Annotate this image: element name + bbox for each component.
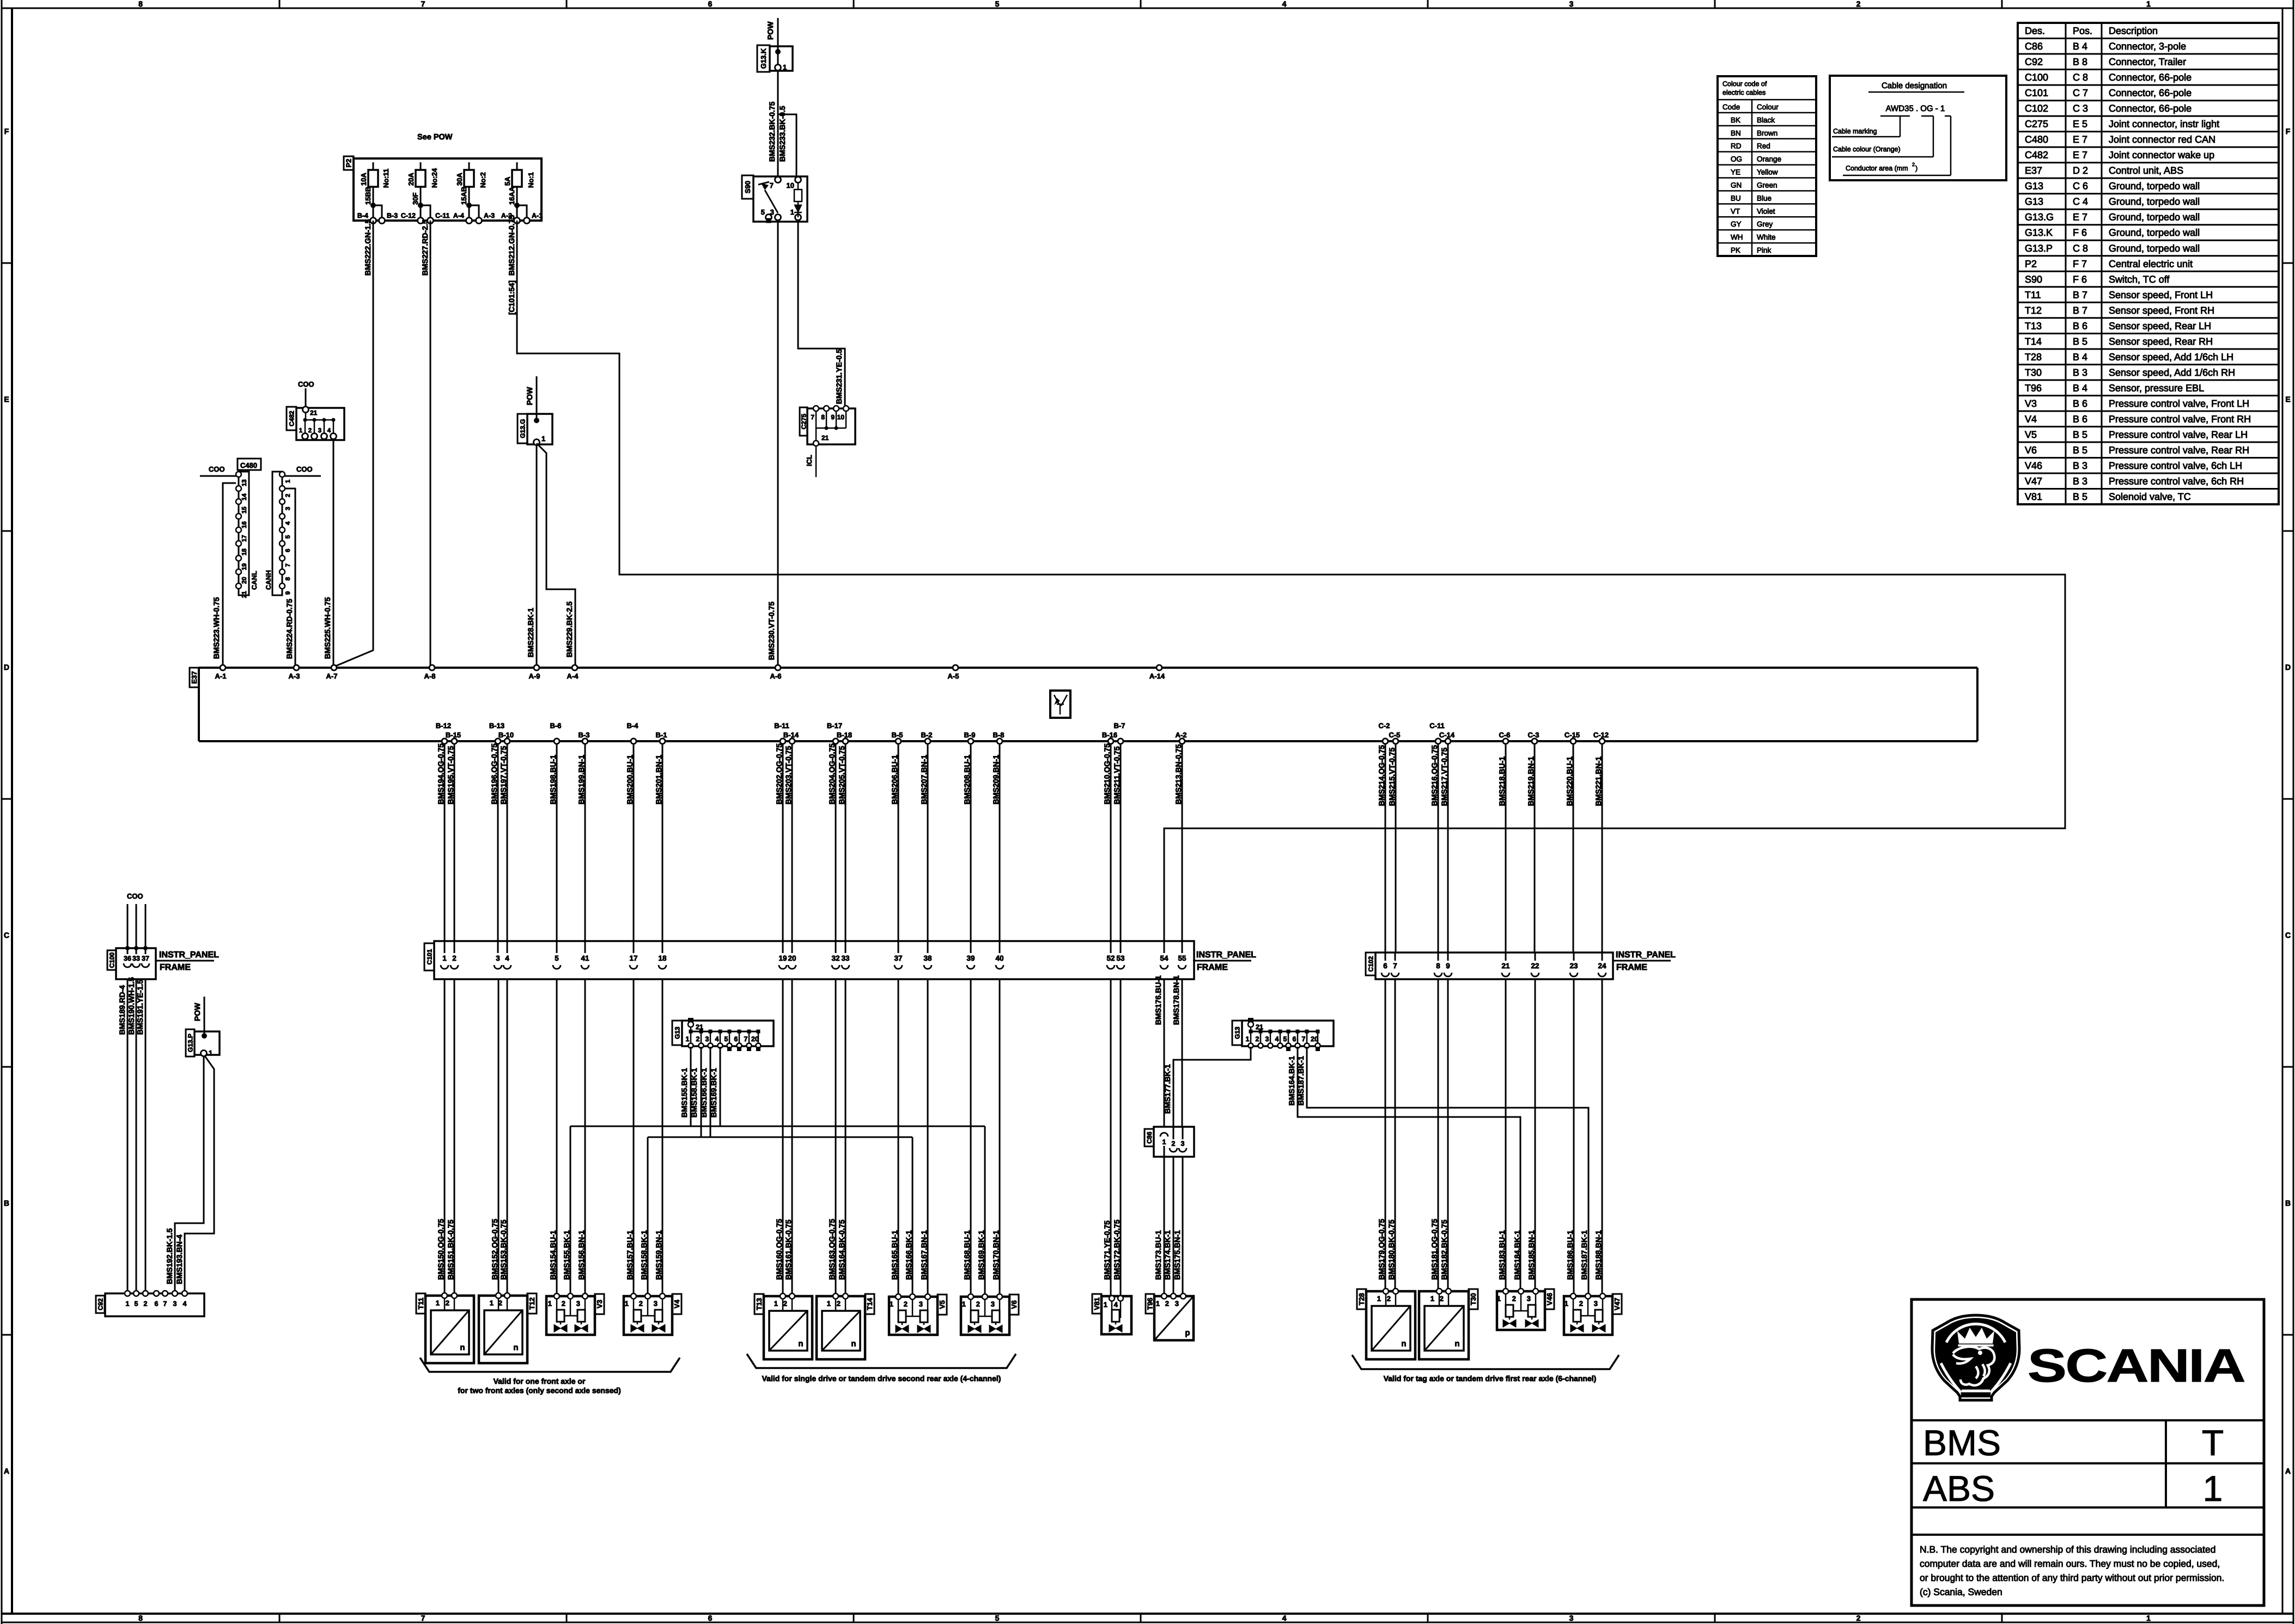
svg-text:1: 1 bbox=[827, 1299, 831, 1308]
svg-text:Pressure control valve, Rear: Pressure control valve, Rear RH bbox=[2109, 444, 2249, 455]
svg-text:2: 2 bbox=[446, 1299, 449, 1307]
svg-text:G13.P: G13.P bbox=[2025, 243, 2053, 254]
svg-text:INSTR_PANEL: INSTR_PANEL bbox=[1196, 950, 1256, 960]
svg-text:COO: COO bbox=[296, 465, 313, 473]
svg-text:C100: C100 bbox=[108, 952, 115, 968]
svg-text:BMS216.OG-0.75: BMS216.OG-0.75 bbox=[1430, 745, 1439, 806]
svg-text:B 5: B 5 bbox=[2073, 429, 2087, 440]
svg-text:GN: GN bbox=[1731, 181, 1742, 189]
svg-text:1: 1 bbox=[2146, 1614, 2151, 1622]
svg-text:Des.: Des. bbox=[2025, 26, 2045, 36]
svg-text:1: 1 bbox=[1156, 1299, 1160, 1308]
svg-text:3: 3 bbox=[654, 1299, 658, 1308]
svg-text:S90: S90 bbox=[2025, 274, 2042, 285]
svg-text:Ground, torpedo wall: Ground, torpedo wall bbox=[2109, 227, 2200, 238]
svg-text:2: 2 bbox=[783, 1299, 787, 1308]
svg-text:BMS215.VT-0.75: BMS215.VT-0.75 bbox=[1387, 747, 1396, 806]
svg-text:B 4: B 4 bbox=[2073, 382, 2087, 393]
svg-text:5: 5 bbox=[995, 1614, 1000, 1622]
svg-text:2: 2 bbox=[144, 1300, 148, 1308]
svg-text:BMS152.OG-0.75: BMS152.OG-0.75 bbox=[490, 1219, 499, 1280]
svg-text:5: 5 bbox=[285, 535, 291, 539]
svg-text:No:24: No:24 bbox=[430, 168, 439, 188]
svg-text:Ground, torpedo wall: Ground, torpedo wall bbox=[2109, 196, 2200, 207]
svg-text:BMS158.BK-1: BMS158.BK-1 bbox=[690, 1068, 698, 1118]
svg-text:BMS202.OG-0.75: BMS202.OG-0.75 bbox=[775, 743, 783, 804]
svg-text:Cable colour (Orange): Cable colour (Orange) bbox=[1833, 145, 1901, 153]
svg-text:COO: COO bbox=[209, 465, 225, 473]
svg-text:A-14: A-14 bbox=[1149, 672, 1165, 680]
svg-text:BMS209.BN-1: BMS209.BN-1 bbox=[991, 755, 1000, 804]
svg-text:p: p bbox=[1185, 1328, 1190, 1338]
svg-text:for two front axles (only seco: for two front axles (only second axle se… bbox=[458, 1386, 621, 1395]
svg-text:BMS171.YE-0.75: BMS171.YE-0.75 bbox=[1103, 1220, 1111, 1280]
svg-text:2: 2 bbox=[1579, 1299, 1583, 1308]
svg-text:[C101:54]: [C101:54] bbox=[507, 280, 516, 315]
svg-text:E 7: E 7 bbox=[2073, 134, 2087, 145]
svg-text:2: 2 bbox=[285, 494, 291, 497]
svg-text:D: D bbox=[2285, 663, 2291, 671]
svg-text:See POW: See POW bbox=[417, 133, 453, 142]
svg-text:15AB: 15AB bbox=[460, 187, 468, 205]
svg-text:B-3: B-3 bbox=[579, 731, 590, 739]
svg-text:15: 15 bbox=[241, 506, 248, 514]
svg-text:BMS230.VT-0.75: BMS230.VT-0.75 bbox=[767, 601, 776, 660]
svg-text:BMS208.BU-1: BMS208.BU-1 bbox=[963, 755, 971, 804]
svg-text:2: 2 bbox=[308, 428, 312, 434]
svg-text:B 3: B 3 bbox=[2073, 460, 2087, 471]
svg-text:V46: V46 bbox=[2025, 460, 2042, 471]
svg-text:A-6: A-6 bbox=[770, 672, 782, 680]
svg-text:3: 3 bbox=[285, 507, 291, 510]
svg-text:Valid for tag axle or tandem d: Valid for tag axle or tandem drive first… bbox=[1384, 1374, 1597, 1383]
svg-text:Ground, torpedo wall: Ground, torpedo wall bbox=[2109, 181, 2200, 192]
svg-text:G13: G13 bbox=[2025, 196, 2043, 207]
svg-text:V5: V5 bbox=[938, 1301, 946, 1309]
svg-text:Red: Red bbox=[1757, 142, 1770, 150]
svg-text:B 6: B 6 bbox=[2073, 320, 2087, 331]
svg-text:4: 4 bbox=[1282, 1614, 1287, 1622]
svg-text:9: 9 bbox=[285, 591, 291, 595]
svg-text:C275: C275 bbox=[800, 413, 807, 429]
svg-text:A-1: A-1 bbox=[532, 212, 543, 219]
svg-text:6: 6 bbox=[708, 1614, 713, 1622]
svg-text:1: 1 bbox=[1430, 1295, 1434, 1303]
svg-text:B 8: B 8 bbox=[2073, 57, 2087, 68]
svg-text:Sensor speed, Add 1/6ch RH: Sensor speed, Add 1/6ch RH bbox=[2109, 367, 2235, 378]
svg-text:14: 14 bbox=[241, 493, 248, 500]
svg-text:FRAME: FRAME bbox=[1616, 963, 1647, 972]
svg-text:COO: COO bbox=[298, 380, 314, 388]
svg-text:T28: T28 bbox=[1357, 1293, 1366, 1305]
svg-text:Violet: Violet bbox=[1757, 207, 1775, 215]
svg-text:B 5: B 5 bbox=[2073, 336, 2087, 347]
svg-text:2: 2 bbox=[1165, 1299, 1169, 1308]
svg-text:3: 3 bbox=[1527, 1295, 1531, 1303]
svg-text:2: 2 bbox=[452, 954, 456, 962]
svg-text:37: 37 bbox=[142, 955, 149, 962]
svg-text:B 6: B 6 bbox=[2073, 413, 2087, 424]
svg-text:T96: T96 bbox=[1146, 1298, 1154, 1310]
svg-text:BMS164.BK-1: BMS164.BK-1 bbox=[1287, 1056, 1296, 1106]
svg-text:BMS166.BK-1: BMS166.BK-1 bbox=[699, 1068, 708, 1118]
svg-text:A-5: A-5 bbox=[948, 672, 959, 680]
svg-text:19: 19 bbox=[778, 954, 787, 962]
svg-text:C-6: C-6 bbox=[1499, 731, 1511, 739]
svg-text:BU: BU bbox=[1731, 194, 1741, 202]
svg-text:1: 1 bbox=[774, 1299, 778, 1308]
svg-text:B 7: B 7 bbox=[2073, 305, 2087, 316]
svg-text:B-13: B-13 bbox=[489, 722, 504, 730]
svg-text:1: 1 bbox=[209, 1049, 212, 1057]
svg-text:33: 33 bbox=[132, 955, 140, 962]
svg-text:C-5: C-5 bbox=[1389, 731, 1401, 739]
svg-text:40: 40 bbox=[995, 954, 1003, 962]
svg-text:E: E bbox=[4, 395, 9, 404]
svg-text:2: 2 bbox=[1440, 1295, 1444, 1303]
svg-text:5A: 5A bbox=[503, 176, 512, 186]
svg-text:1: 1 bbox=[2146, 0, 2151, 8]
svg-text:Sensor speed, Rear RH: Sensor speed, Rear RH bbox=[2109, 336, 2213, 347]
svg-text:B-1: B-1 bbox=[656, 731, 667, 739]
svg-text:C 8: C 8 bbox=[2073, 243, 2088, 254]
svg-text:5: 5 bbox=[135, 1300, 138, 1308]
svg-text:GY: GY bbox=[1731, 220, 1742, 228]
svg-text:33: 33 bbox=[841, 954, 850, 962]
svg-text:n: n bbox=[460, 1343, 465, 1352]
svg-text:BMS203.VT-0.75: BMS203.VT-0.75 bbox=[784, 746, 793, 804]
svg-text:5: 5 bbox=[761, 208, 765, 216]
svg-text:C482: C482 bbox=[2025, 150, 2048, 161]
svg-text:B: B bbox=[2285, 1199, 2291, 1207]
svg-text:1: 1 bbox=[436, 1299, 440, 1307]
svg-text:BMS219.BN-1: BMS219.BN-1 bbox=[1526, 756, 1535, 806]
svg-text:Pressure control valve, Rear: Pressure control valve, Rear LH bbox=[2109, 429, 2248, 440]
svg-text:36: 36 bbox=[124, 955, 131, 962]
svg-text:E 5: E 5 bbox=[2073, 119, 2087, 130]
svg-text:BMS178.BN-1: BMS178.BN-1 bbox=[1172, 975, 1180, 1025]
svg-text:C-14: C-14 bbox=[1439, 731, 1455, 739]
svg-text:electric cables: electric cables bbox=[1722, 89, 1766, 96]
svg-text:5: 5 bbox=[1283, 1035, 1287, 1043]
svg-text:BMS205.VT-0.75: BMS205.VT-0.75 bbox=[837, 746, 846, 804]
svg-text:BMS192.BK-1.5: BMS192.BK-1.5 bbox=[165, 1228, 174, 1284]
svg-text:1: 1 bbox=[126, 1300, 130, 1308]
svg-text:C 3: C 3 bbox=[2073, 103, 2088, 114]
svg-text:A-3: A-3 bbox=[484, 212, 495, 219]
svg-text:32: 32 bbox=[831, 954, 839, 962]
svg-text:Sensor speed, Front RH: Sensor speed, Front RH bbox=[2109, 305, 2214, 316]
svg-text:Sensor, pressure EBL: Sensor, pressure EBL bbox=[2109, 382, 2204, 393]
svg-text:BMS201.BN-1: BMS201.BN-1 bbox=[654, 755, 663, 804]
svg-text:Conductor area (mm: Conductor area (mm bbox=[1846, 164, 1908, 172]
svg-text:B-10: B-10 bbox=[498, 731, 514, 739]
svg-text:3: 3 bbox=[173, 1300, 177, 1308]
svg-text:3: 3 bbox=[705, 1035, 709, 1043]
svg-text:Pressure control valve, Front: Pressure control valve, Front RH bbox=[2109, 413, 2251, 424]
svg-text:8: 8 bbox=[285, 577, 291, 581]
svg-text:Solenoid valve, TC: Solenoid valve, TC bbox=[2109, 491, 2191, 502]
svg-text:BMS223.WH-0.75: BMS223.WH-0.75 bbox=[212, 597, 221, 659]
svg-text:V3: V3 bbox=[595, 1300, 604, 1309]
svg-text:B-15: B-15 bbox=[446, 731, 461, 739]
svg-text:N.B. The copyright and ownersh: N.B. The copyright and ownership of this… bbox=[1920, 1544, 2215, 1555]
svg-text:C480: C480 bbox=[2025, 134, 2048, 145]
svg-text:18: 18 bbox=[241, 548, 248, 555]
svg-text:BMS222.GN-1.5: BMS222.GN-1.5 bbox=[363, 219, 372, 276]
svg-text:BMS225.WH-0.75: BMS225.WH-0.75 bbox=[323, 597, 332, 659]
svg-text:V81: V81 bbox=[2025, 491, 2042, 502]
svg-text:C 6: C 6 bbox=[2073, 181, 2088, 192]
svg-text:BMS173.BU-1: BMS173.BU-1 bbox=[1154, 1230, 1162, 1280]
svg-text:41: 41 bbox=[581, 954, 589, 962]
svg-text:3: 3 bbox=[991, 1300, 995, 1308]
svg-text:Sensor speed, Front LH: Sensor speed, Front LH bbox=[2109, 289, 2213, 300]
svg-text:V6: V6 bbox=[1010, 1301, 1018, 1309]
svg-text:T30: T30 bbox=[1469, 1293, 1477, 1305]
svg-text:C92: C92 bbox=[2025, 57, 2043, 68]
svg-text:BMS207.BN-1: BMS207.BN-1 bbox=[920, 755, 928, 804]
svg-text:INSTR_PANEL: INSTR_PANEL bbox=[159, 950, 219, 960]
svg-text:2: 2 bbox=[1172, 1140, 1176, 1147]
svg-text:15BB: 15BB bbox=[364, 187, 372, 205]
svg-text:T13: T13 bbox=[2025, 320, 2042, 331]
svg-text:BMS156.BN-1: BMS156.BN-1 bbox=[577, 1230, 586, 1280]
svg-text:Cable designation: Cable designation bbox=[1882, 81, 1947, 90]
svg-text:20: 20 bbox=[751, 1035, 759, 1043]
svg-text:55: 55 bbox=[1178, 954, 1186, 962]
svg-text:Joint connector wake up: Joint connector wake up bbox=[2109, 150, 2214, 161]
svg-text:C-11: C-11 bbox=[435, 212, 449, 219]
svg-text:Joint connector, instr light: Joint connector, instr light bbox=[2109, 119, 2219, 130]
svg-text:T96: T96 bbox=[2025, 382, 2042, 393]
svg-text:BMS228.BK-1: BMS228.BK-1 bbox=[526, 608, 535, 657]
svg-text:1: 1 bbox=[548, 1299, 552, 1308]
svg-text:17: 17 bbox=[629, 954, 637, 962]
svg-text:Switch, TC off: Switch, TC off bbox=[2109, 274, 2170, 285]
svg-text:2: 2 bbox=[1856, 0, 1861, 8]
svg-text:3: 3 bbox=[919, 1300, 923, 1308]
svg-text:BMS188.BN-1: BMS188.BN-1 bbox=[1594, 1230, 1603, 1280]
svg-text:BMS154.BU-1: BMS154.BU-1 bbox=[549, 1230, 557, 1280]
svg-text:5: 5 bbox=[995, 0, 1000, 8]
svg-text:(c) Scania, Sweden: (c) Scania, Sweden bbox=[1920, 1586, 2002, 1597]
svg-text:BMS157.BU-1: BMS157.BU-1 bbox=[625, 1230, 634, 1280]
svg-text:BMS: BMS bbox=[1923, 1422, 2001, 1463]
svg-text:T12: T12 bbox=[528, 1297, 536, 1309]
svg-text:POW: POW bbox=[766, 21, 775, 40]
svg-text:Ground, torpedo wall: Ground, torpedo wall bbox=[2109, 243, 2200, 254]
svg-text:1: 1 bbox=[1246, 1035, 1250, 1043]
svg-text:6: 6 bbox=[708, 0, 713, 8]
svg-text:BMS187.BK-1: BMS187.BK-1 bbox=[1580, 1230, 1588, 1280]
svg-text:BMS229.BK-2.5: BMS229.BK-2.5 bbox=[565, 601, 574, 657]
svg-text:20: 20 bbox=[241, 577, 248, 584]
svg-text:Sensor speed, Add 1/6ch LH: Sensor speed, Add 1/6ch LH bbox=[2109, 351, 2233, 362]
svg-text:BMS189.RD-4: BMS189.RD-4 bbox=[118, 985, 126, 1035]
svg-text:4: 4 bbox=[505, 954, 509, 962]
svg-text:T11: T11 bbox=[417, 1298, 425, 1310]
svg-text:BMS217.VT-0.75: BMS217.VT-0.75 bbox=[1440, 747, 1448, 806]
svg-text:E 7: E 7 bbox=[2073, 150, 2087, 161]
svg-text:C-2: C-2 bbox=[1379, 722, 1390, 730]
svg-text:7: 7 bbox=[421, 0, 425, 8]
svg-text:FRAME: FRAME bbox=[1197, 963, 1228, 972]
svg-text:Connector, 66-pole: Connector, 66-pole bbox=[2109, 72, 2191, 83]
svg-text:A: A bbox=[2285, 1467, 2291, 1475]
svg-text:computer data are and will rem: computer data are and will remain ours. … bbox=[1920, 1558, 2220, 1569]
svg-text:AWD35 . OG - 1: AWD35 . OG - 1 bbox=[1886, 104, 1945, 113]
svg-text:1: 1 bbox=[285, 479, 291, 483]
svg-text:B-6: B-6 bbox=[550, 722, 562, 730]
svg-text:CANH: CANH bbox=[265, 570, 272, 590]
svg-text:1: 1 bbox=[541, 435, 545, 443]
svg-text:BMS163.OG-0.75: BMS163.OG-0.75 bbox=[827, 1219, 836, 1280]
svg-text:2: 2 bbox=[1256, 1035, 1259, 1043]
svg-text:7: 7 bbox=[770, 181, 774, 190]
svg-text:BMS176.BU-1: BMS176.BU-1 bbox=[1154, 975, 1162, 1025]
svg-text:BMS231.YE-0.5: BMS231.YE-0.5 bbox=[835, 349, 843, 404]
svg-text:Valid for single drive or tand: Valid for single drive or tandem drive s… bbox=[762, 1374, 1001, 1383]
svg-text:BMS190.WH-1.5: BMS190.WH-1.5 bbox=[127, 977, 136, 1035]
svg-text:8: 8 bbox=[821, 413, 825, 421]
svg-text:G13.P: G13.P bbox=[186, 1034, 194, 1052]
svg-text:n: n bbox=[851, 1339, 856, 1348]
svg-text:21: 21 bbox=[1501, 962, 1510, 970]
svg-text:2: 2 bbox=[696, 1035, 700, 1043]
svg-text:Central electric unit: Central electric unit bbox=[2109, 258, 2193, 269]
svg-text:D: D bbox=[4, 663, 9, 671]
svg-text:4: 4 bbox=[1282, 0, 1287, 8]
svg-text:C 4: C 4 bbox=[2073, 196, 2088, 207]
svg-text:BMS168.BU-1: BMS168.BU-1 bbox=[963, 1230, 971, 1280]
svg-text:WH: WH bbox=[1731, 233, 1743, 241]
svg-text:C: C bbox=[4, 931, 9, 939]
svg-text:1: 1 bbox=[625, 1299, 629, 1308]
svg-text:4: 4 bbox=[285, 521, 291, 525]
svg-text:20A: 20A bbox=[407, 173, 415, 186]
svg-text:2: 2 bbox=[976, 1300, 980, 1308]
svg-text:BMS160.OG-0.75: BMS160.OG-0.75 bbox=[775, 1219, 783, 1280]
svg-text:n: n bbox=[1454, 1339, 1459, 1348]
svg-text:6: 6 bbox=[285, 549, 291, 552]
svg-text:C86: C86 bbox=[1146, 1132, 1153, 1144]
svg-text:21: 21 bbox=[821, 434, 829, 442]
svg-text:Pressure control valve, 6ch R: Pressure control valve, 6ch RH bbox=[2109, 475, 2244, 486]
svg-text:C-11: C-11 bbox=[1429, 722, 1444, 730]
svg-text:22: 22 bbox=[1531, 962, 1539, 970]
svg-text:A-3: A-3 bbox=[289, 672, 300, 680]
svg-text:Valid for one front axle or: Valid for one front axle or bbox=[494, 1377, 586, 1385]
svg-text:6: 6 bbox=[1293, 1035, 1296, 1043]
svg-text:C: C bbox=[2285, 931, 2291, 939]
svg-text:A-9: A-9 bbox=[529, 672, 540, 680]
svg-text:B-3: B-3 bbox=[387, 212, 398, 219]
svg-text:F 6: F 6 bbox=[2073, 227, 2087, 238]
svg-text:1: 1 bbox=[686, 1035, 690, 1043]
svg-text:FRAME: FRAME bbox=[160, 963, 191, 972]
svg-text:Pink: Pink bbox=[1757, 246, 1772, 254]
svg-text:BMS195.VT-0.75: BMS195.VT-0.75 bbox=[446, 746, 455, 804]
svg-text:BMS155.BK-1: BMS155.BK-1 bbox=[680, 1068, 689, 1118]
svg-text:BMS204.OG-0.75: BMS204.OG-0.75 bbox=[827, 743, 836, 804]
svg-text:1: 1 bbox=[299, 428, 303, 434]
svg-text:G13.G: G13.G bbox=[2025, 212, 2054, 223]
svg-text:BMS218.BU-1: BMS218.BU-1 bbox=[1497, 756, 1506, 806]
svg-text:Grey: Grey bbox=[1757, 220, 1773, 228]
svg-text:1: 1 bbox=[1104, 1301, 1107, 1309]
svg-text:BN: BN bbox=[1731, 129, 1741, 137]
svg-text:V4: V4 bbox=[673, 1299, 681, 1309]
svg-text:B-14: B-14 bbox=[783, 731, 799, 739]
svg-text:BMS183.BU-1: BMS183.BU-1 bbox=[1497, 1230, 1506, 1280]
svg-text:E: E bbox=[2285, 395, 2290, 404]
svg-text:E37: E37 bbox=[2025, 165, 2042, 176]
svg-text:2: 2 bbox=[562, 1299, 565, 1308]
svg-text:BMS198.BU-1: BMS198.BU-1 bbox=[549, 755, 557, 804]
svg-text:38: 38 bbox=[923, 954, 932, 962]
svg-text:19: 19 bbox=[241, 563, 248, 570]
svg-text:V6: V6 bbox=[2025, 444, 2037, 455]
svg-text:COO: COO bbox=[127, 892, 143, 900]
svg-text:BMS161.BK-0.75: BMS161.BK-0.75 bbox=[784, 1219, 793, 1280]
svg-text:BMS227.RD-2.5: BMS227.RD-2.5 bbox=[421, 219, 429, 276]
svg-text:1: 1 bbox=[962, 1300, 966, 1308]
svg-text:VT: VT bbox=[1731, 207, 1740, 215]
svg-text:BMS177.BK-1: BMS177.BK-1 bbox=[1163, 1064, 1172, 1114]
svg-text:4: 4 bbox=[1114, 1301, 1118, 1309]
svg-text:20: 20 bbox=[1311, 1035, 1318, 1043]
svg-text:B: B bbox=[4, 1199, 9, 1207]
svg-text:C102: C102 bbox=[2025, 103, 2048, 114]
svg-text:5: 5 bbox=[555, 954, 559, 962]
svg-text:BMS172.BK-0.75: BMS172.BK-0.75 bbox=[1112, 1219, 1121, 1280]
svg-text:G13: G13 bbox=[2025, 181, 2043, 192]
svg-text:B 4: B 4 bbox=[2073, 351, 2087, 362]
svg-text:C 7: C 7 bbox=[2073, 88, 2088, 99]
svg-text:10A: 10A bbox=[360, 173, 368, 186]
svg-text:6: 6 bbox=[155, 1300, 159, 1308]
svg-text:B 7: B 7 bbox=[2073, 289, 2087, 300]
svg-text:B-11: B-11 bbox=[774, 722, 789, 730]
svg-text:2: 2 bbox=[1387, 1295, 1391, 1303]
svg-text:1: 1 bbox=[2203, 1468, 2223, 1509]
svg-text:3: 3 bbox=[1265, 1035, 1269, 1043]
svg-text:1: 1 bbox=[1377, 1295, 1381, 1303]
svg-text:G13.K: G13.K bbox=[2025, 227, 2053, 238]
svg-text:7: 7 bbox=[285, 564, 291, 567]
svg-text:B 5: B 5 bbox=[2073, 491, 2087, 502]
svg-text:V5: V5 bbox=[2025, 429, 2037, 440]
svg-text:A-2: A-2 bbox=[1176, 731, 1187, 739]
svg-text:4: 4 bbox=[1275, 1035, 1279, 1043]
svg-text:1: 1 bbox=[790, 208, 794, 216]
svg-text:6: 6 bbox=[1383, 962, 1387, 970]
svg-text:BMS182.BK-0.75: BMS182.BK-0.75 bbox=[1440, 1219, 1448, 1280]
svg-text:or brought to the attention of: or brought to the attention of any third… bbox=[1920, 1572, 2224, 1583]
svg-text:23: 23 bbox=[1569, 962, 1578, 970]
svg-text:C100: C100 bbox=[2025, 72, 2048, 83]
svg-text:Sensor speed, Rear LH: Sensor speed, Rear LH bbox=[2109, 320, 2211, 331]
svg-text:POW: POW bbox=[193, 1003, 202, 1021]
svg-text:18: 18 bbox=[658, 954, 667, 962]
svg-text:ABS: ABS bbox=[1923, 1468, 1995, 1509]
svg-text:BMS200.BU-1: BMS200.BU-1 bbox=[625, 755, 634, 804]
svg-text:10: 10 bbox=[837, 413, 845, 421]
svg-text:Blue: Blue bbox=[1757, 194, 1772, 202]
svg-text:37: 37 bbox=[894, 954, 902, 962]
svg-text:7: 7 bbox=[811, 413, 814, 421]
